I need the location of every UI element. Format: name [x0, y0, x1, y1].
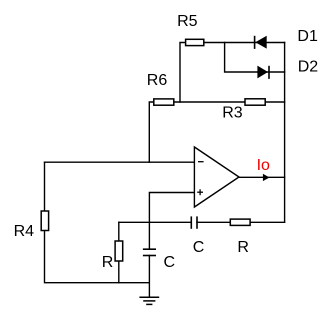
svg-text:R4: R4: [14, 223, 35, 240]
svg-text:C: C: [193, 239, 205, 256]
svg-text:Io: Io: [257, 157, 270, 174]
svg-text:R: R: [102, 254, 114, 271]
svg-text:R5: R5: [177, 13, 198, 30]
svg-text:D1: D1: [297, 28, 318, 45]
svg-text:D2: D2: [298, 59, 319, 76]
svg-text:C: C: [164, 254, 176, 271]
svg-text:R3: R3: [222, 105, 243, 122]
svg-text:R6: R6: [147, 72, 168, 89]
svg-text:R: R: [237, 239, 249, 256]
